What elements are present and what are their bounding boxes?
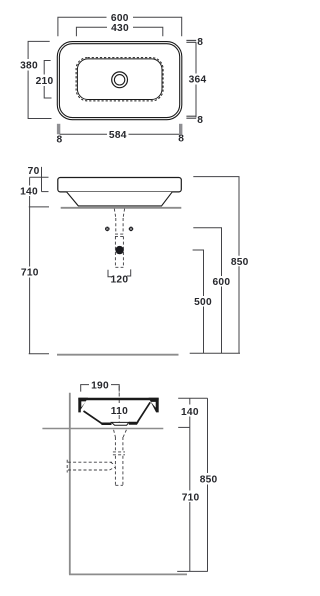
wall line behind basin [61, 207, 182, 209]
svg-text:8: 8 [57, 134, 63, 145]
svg-text:190: 190 [91, 380, 109, 391]
right mounting bolt [129, 227, 134, 232]
drain centerline dashed [118, 386, 120, 405]
drain pipe dashed outline [114, 209, 124, 268]
dim 500 elbow [193, 250, 204, 296]
dim 850 (side) [207, 398, 209, 473]
floor line (front view) [57, 354, 179, 356]
dim 710 vertical [29, 207, 31, 267]
svg-text:584: 584 [109, 130, 127, 141]
wall vertical line [69, 393, 71, 575]
svg-text:140: 140 [20, 186, 38, 197]
svg-text:850: 850 [200, 474, 218, 485]
drain flange (white trapezoid) [112, 422, 129, 425]
dim 140 (side) [178, 397, 207, 399]
dim 584 with 8mm ticks [57, 124, 60, 135]
dim 710 (side) [189, 427, 191, 490]
side drain pipe dashed [67, 430, 126, 486]
svg-text:140: 140 [181, 407, 199, 418]
bowl bottom right thick segment [129, 422, 139, 425]
svg-text:850: 850 [231, 257, 249, 268]
bowl bottom left thick segment [100, 423, 112, 426]
svg-text:210: 210 [36, 76, 54, 87]
basin inner bowl edge (solid) [77, 59, 162, 100]
dim 850 elbow [193, 177, 239, 256]
svg-text:8: 8 [178, 134, 184, 145]
dim line 600 [58, 17, 107, 36]
dim bracket 210 [44, 61, 50, 75]
svg-text:380: 380 [20, 60, 38, 71]
drain trap fitting [115, 246, 123, 254]
shelf line under basin [42, 428, 163, 430]
bottom tick (side dims) [177, 570, 208, 572]
dim 364 vertical with 8mm ticks [186, 39, 196, 41]
svg-text:364: 364 [189, 75, 207, 86]
right rim cap (black triangle) [149, 398, 159, 413]
floor line (side view) [69, 573, 187, 575]
svg-text:70: 70 [28, 166, 40, 177]
front bowl wall slant [138, 402, 151, 422]
basin inner bowl edge (dashed) [76, 58, 163, 101]
left mounting bolt [105, 227, 110, 232]
svg-text:8: 8 [197, 115, 203, 126]
dim 70 bracket [41, 167, 43, 192]
svg-text:430: 430 [111, 23, 129, 34]
rear bowl wall slant [84, 411, 104, 424]
dim 120 brackets [108, 270, 112, 277]
rim slab cross-section [58, 178, 182, 192]
drain inner circle [114, 75, 124, 85]
dim 140 vertical [29, 177, 31, 185]
basin top edge (thick) [78, 398, 158, 400]
drain outer circle [112, 72, 128, 88]
svg-text:710: 710 [182, 492, 200, 503]
dim 600 elbow [193, 228, 221, 276]
svg-text:120: 120 [111, 274, 129, 285]
svg-text:110: 110 [111, 406, 128, 417]
svg-text:8: 8 [197, 37, 203, 48]
basin outer rim (inner contour) [59, 44, 179, 118]
svg-text:500: 500 [194, 297, 212, 308]
dim 190 bracket [81, 385, 120, 392]
svg-text:710: 710 [21, 267, 39, 278]
left rim cap (black triangle) [78, 398, 88, 413]
dim line 430 [76, 27, 107, 36]
bowl underside trapezoid [67, 192, 173, 206]
waste pipe to wall dashed [68, 461, 112, 463]
basin outer rim (outer contour) [57, 42, 182, 120]
dim bracket 380 [28, 41, 50, 59]
svg-text:600: 600 [213, 277, 231, 288]
bottom tick of right dims [190, 352, 240, 354]
